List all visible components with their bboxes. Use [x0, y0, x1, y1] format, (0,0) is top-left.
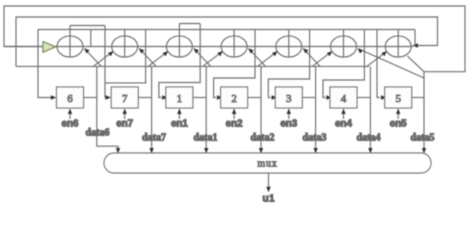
- register R1 (flip-flop box): [166, 87, 193, 108]
- wire: xor U5 top vertical: [397, 30, 399, 36]
- arrowhead into register R7: [106, 95, 112, 99]
- wire: long diagonal from xor U4 down to feedback node: [358, 49, 424, 78]
- svg-text:data6: data6: [86, 128, 110, 139]
- wire: distribution line drop to xor U5 input node: [414, 30, 416, 46]
- arrowhead into xor U1 lower-right: [193, 48, 199, 53]
- svg-text:mux: mux: [257, 159, 277, 170]
- svg-text:en5: en5: [390, 119, 407, 130]
- wire: register R6 D input feed: [38, 30, 52, 98]
- arrowhead en5 into register R5: [396, 109, 400, 115]
- svg-text:en6: en6: [62, 119, 79, 130]
- wire: diagonal from xor U3 down to bus: [303, 49, 320, 67]
- wire: xor U2 top vertical: [233, 30, 235, 36]
- arrowhead data6 into mux: [116, 148, 120, 154]
- wire: second feedback loop from bus into xor U5 right input: [16, 17, 438, 66]
- arrowhead en2 into register R2: [232, 109, 236, 115]
- arrowhead into register R3: [272, 95, 278, 99]
- wire: enable input en4: [343, 110, 345, 120]
- svg-text:1: 1: [177, 93, 183, 105]
- wire: register R4 output stub: [357, 97, 370, 99]
- wire: diagonal from bus up into xor U1 lower-left: [148, 51, 168, 67]
- register R7 (flip-flop box): [111, 87, 138, 108]
- wire: diagonal from xor U1 down to bus: [194, 49, 211, 67]
- wire: horizontal chain line through xor gates: [4, 46, 413, 48]
- arrowhead u1: [266, 187, 270, 193]
- register R4 (flip-flop box): [330, 87, 357, 108]
- wire: enable input en6: [69, 110, 71, 120]
- xor gate U6 (circle with plus): [57, 36, 83, 57]
- arrowhead into register R5: [381, 95, 387, 99]
- svg-text:en1: en1: [171, 119, 188, 130]
- arrowhead into xor U3 lower-right: [303, 48, 309, 53]
- wire: tap joining register R7 D input: [105, 30, 146, 83]
- arrowhead into register R6: [51, 95, 57, 99]
- arrowhead data5 into mux: [422, 148, 426, 154]
- wire: register R7 D input straight drop: [105, 26, 107, 98]
- wire: diagonal from bus up into xor U7 lower-left: [93, 51, 113, 67]
- wire: register R4 D input feed over the top: [323, 30, 364, 98]
- arrowhead en1 into register R1: [177, 109, 181, 115]
- svg-text:6: 6: [67, 93, 73, 105]
- arrowhead data3 into mux: [313, 148, 317, 154]
- arrowhead en7 into register R7: [123, 109, 127, 115]
- wire: feedback node vertical to register R5 output: [423, 72, 425, 98]
- wire: data3 line down to mux: [315, 66, 317, 152]
- arrowhead into xor U7 lower-right: [139, 48, 145, 53]
- wire: third horizontal distribution line: [38, 29, 415, 31]
- wire: register R5 output stub: [412, 97, 424, 99]
- svg-text:data4: data4: [357, 133, 381, 144]
- arrowhead data7 into mux: [149, 148, 153, 154]
- arrowhead into xor U2 lower-left: [217, 51, 223, 56]
- wire: diagonal from bus up into xor U4 lower-left: [312, 51, 332, 67]
- xor gate U7 (circle with plus): [112, 36, 138, 57]
- svg-text:u1: u1: [262, 194, 275, 205]
- wire: diagonal from xor U7 down to bus: [139, 49, 156, 67]
- buffer amplifier (green triangle): [43, 42, 56, 53]
- svg-text:data7: data7: [142, 133, 166, 144]
- svg-text:data2: data2: [251, 133, 275, 144]
- arrowhead into register R2: [217, 95, 223, 99]
- wire: diagonal from bus up into xor U5 lower-left: [366, 51, 386, 67]
- arrowhead into xor U5 lower-left: [381, 51, 387, 56]
- wire: step over xor U6: [70, 25, 105, 27]
- arrowhead en3 into register R3: [287, 109, 291, 115]
- wire: diagonal from xor U6 down to bus: [85, 49, 102, 67]
- arrowhead into xor U2 lower-right: [248, 48, 254, 53]
- wire: diagonal from xor U2 down to bus: [249, 49, 266, 67]
- svg-text:data3: data3: [303, 133, 327, 144]
- wire: diagonal from bus up into xor U3 lower-left: [257, 51, 277, 67]
- wire: register R3 D input feed over the top: [268, 30, 309, 98]
- arrowhead into xor U4 lower-left: [327, 51, 333, 56]
- wire: register R5 D input straight drop: [377, 30, 380, 98]
- arrowhead data1 into mux: [204, 148, 208, 154]
- svg-text:data1: data1: [194, 133, 218, 144]
- wire: data1 line down to mux: [205, 66, 207, 152]
- xor gate U1 (circle with plus): [166, 36, 192, 57]
- svg-text:en7: en7: [116, 119, 133, 130]
- wire: register R2 output stub: [248, 97, 261, 99]
- wire: enable input en3: [288, 110, 290, 120]
- wire: register R3 output stub: [302, 97, 315, 99]
- wire: xor U7 top vertical: [124, 30, 126, 36]
- wire: data4 line down to mux: [369, 66, 371, 152]
- multiplexer MUX (stadium shape): [104, 153, 431, 173]
- wire: outer feedback loop from node to buffer input: [4, 6, 465, 72]
- arrowhead into xor U1 lower-left: [163, 51, 169, 56]
- arrowhead en4 into register R4: [341, 109, 345, 115]
- wire: step over xor U1: [179, 23, 200, 25]
- svg-text:5: 5: [395, 93, 401, 105]
- arrowhead into xor U5 right input: [412, 43, 418, 47]
- register R6 (flip-flop box): [57, 87, 84, 108]
- svg-text:2: 2: [231, 93, 237, 105]
- wire: xor U4 top vertical: [343, 30, 345, 36]
- xor gate U5 (circle with plus): [385, 36, 411, 57]
- svg-text:en3: en3: [280, 119, 297, 130]
- wire: xor U3 top vertical: [288, 30, 290, 36]
- wire: enable input en7: [124, 110, 126, 120]
- wire: data7 line down to mux: [151, 66, 153, 152]
- wire: enable input en5: [397, 110, 399, 120]
- arrowhead en6 into register R6: [68, 109, 72, 115]
- register R5 (flip-flop box): [385, 87, 412, 108]
- arrowhead into xor U7 lower-left: [108, 51, 114, 56]
- wire: data5 line down to mux: [423, 98, 425, 153]
- svg-text:en2: en2: [226, 119, 243, 130]
- arrowhead into xor U6 lower-right: [84, 48, 90, 53]
- wire: enable input en2: [233, 110, 235, 120]
- wire: xor U1 top vertical: [178, 24, 180, 36]
- wire: horizontal bus line under xor row: [16, 65, 369, 67]
- wire: tap from distribution line down to chain node: [90, 30, 92, 47]
- wire: data6 line down to mux: [97, 66, 118, 152]
- register R3 (flip-flop box): [275, 87, 302, 108]
- svg-text:4: 4: [341, 93, 347, 105]
- wire: enable input en1: [178, 110, 180, 120]
- arrowhead into xor U3 lower-left: [272, 51, 278, 56]
- arrowhead into register R4: [326, 95, 332, 99]
- svg-text:data5: data5: [411, 133, 435, 144]
- xor gate U4 (circle with plus): [331, 36, 357, 57]
- arrowhead into register R1: [162, 95, 168, 99]
- wire: xor U6 top vertical: [69, 26, 71, 36]
- svg-text:7: 7: [122, 93, 128, 105]
- svg-text:3: 3: [286, 93, 292, 105]
- wire: data2 line down to mux: [260, 66, 262, 152]
- arrowhead data4 into mux: [368, 148, 372, 154]
- svg-text:en4: en4: [335, 119, 352, 130]
- wire: register R1 output stub: [193, 97, 206, 99]
- wire: mux output u1: [268, 173, 270, 188]
- wire: register R7 output stub: [138, 97, 151, 99]
- register R2 (flip-flop box): [221, 87, 248, 108]
- xor gate U2 (circle with plus): [221, 36, 247, 57]
- xor gate U3 (circle with plus): [276, 36, 302, 57]
- wire: register R2 D input feed over the top: [214, 30, 255, 98]
- wire: register R1 D input feed over the top: [159, 24, 200, 98]
- arrowhead data2 into mux: [259, 148, 263, 154]
- wire: diagonal from bus up into xor U2 lower-left: [202, 51, 222, 67]
- wire: xor U5 output diagonal to feedback node: [408, 56, 425, 72]
- wire: register R6 output stub: [84, 97, 97, 99]
- arrowhead into xor U4 lower-right: [358, 48, 364, 53]
